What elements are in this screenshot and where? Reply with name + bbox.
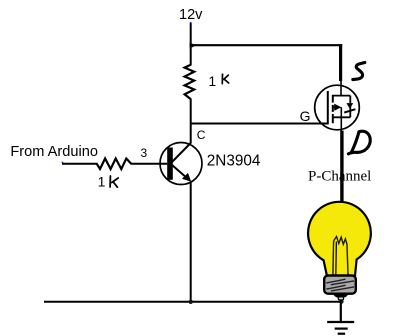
- ground symbol: [327, 300, 354, 334]
- transistor Q1 circle: [160, 143, 202, 185]
- MOSFET channel bar segments: [332, 95, 334, 123]
- MOSFET Q2 body circle: [315, 85, 360, 130]
- MOSFET gate bar: [327, 91, 329, 124]
- lamp screw base: [324, 276, 356, 294]
- svg-text:1: 1: [98, 174, 106, 190]
- transistor Q1 base bar: [167, 148, 173, 180]
- junction dot 12v rail: [190, 42, 196, 49]
- MOSFET source stub (top): [333, 95, 351, 97]
- svg-text:12v: 12v: [179, 7, 203, 23]
- wire source lead (thick): [339, 44, 342, 81]
- lamp filament: [333, 237, 348, 275]
- wire collector branch: [190, 99, 192, 144]
- node marker (blue) at 12v stub top: [190, 22, 192, 24]
- wire drain lead to lamp (thick): [340, 131, 343, 205]
- svg-text:2N3904: 2N3904: [207, 152, 261, 169]
- transistor Q1 emitter line with arrow: [172, 165, 188, 179]
- wire 12v stub: [190, 23, 192, 66]
- wire emitter to ground rail: [190, 181, 192, 302]
- node marker (blue) at wire start: [62, 162, 64, 164]
- wire bottom rail: [44, 301, 342, 303]
- svg-text:P-Channel: P-Channel: [308, 169, 371, 185]
- svg-text:3: 3: [141, 146, 148, 160]
- resistor R2 1k (horizontal): [97, 159, 132, 170]
- MOSFET drain stub (bottom): [333, 116, 351, 118]
- MOSFET right vertical (body diode branch): [349, 96, 351, 118]
- svg-text:G: G: [300, 108, 311, 124]
- resistor R1 1k (vertical): [185, 65, 195, 99]
- svg-text:From Arduino: From Arduino: [10, 144, 98, 160]
- MOSFET body diode: [346, 103, 353, 109]
- wire gate (collector to MOSFET gate): [191, 123, 328, 125]
- junction dot lamp/rail: [339, 300, 343, 304]
- junction dot emitter/rail: [189, 300, 193, 304]
- transistor Q1 collector line: [172, 143, 191, 162]
- label D (drain, script): [348, 131, 370, 154]
- wire base input: [62, 163, 98, 165]
- wire MOSFET inner bottom lead: [340, 107, 342, 131]
- label S (source, script): [353, 63, 365, 80]
- svg-text:C: C: [197, 128, 206, 142]
- wire MOSFET inner top lead: [340, 81, 342, 96]
- svg-text:1: 1: [208, 73, 216, 89]
- wire resistor to base: [131, 163, 168, 165]
- lamp base tip: [333, 294, 349, 298]
- wire top rail: [190, 44, 343, 46]
- MOSFET body arrow: [333, 106, 338, 108]
- lamp bulb globe: [308, 202, 371, 276]
